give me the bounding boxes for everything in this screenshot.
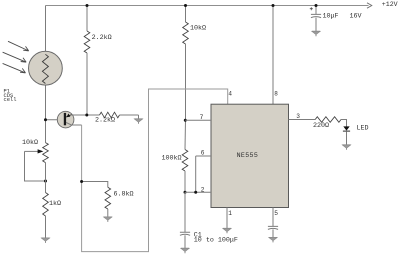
- pin 1 stub: [226, 207, 228, 228]
- ground below LED: [342, 145, 350, 150]
- pin 3 stub: [289, 119, 316, 121]
- IC U1 NE555 body: [211, 104, 289, 207]
- resistor R 2.2k (vertical): [86, 6, 88, 32]
- wire +12V top rail: [46, 5, 369, 7]
- svg-text:100kΩ: 100kΩ: [162, 155, 182, 163]
- svg-text:2: 2: [201, 186, 205, 193]
- resistor R 220 ohm: [315, 117, 341, 123]
- wire emitter to 6.8k: [82, 182, 108, 188]
- junction 100k/C1/pin2: [184, 191, 187, 194]
- ground below 6.8k: [104, 217, 112, 222]
- wire from rail down through photocell to base junction: [45, 6, 47, 143]
- wiper return wire: [25, 151, 46, 181]
- potentiometer wiper arrow: [25, 150, 41, 152]
- pin 5 stub: [272, 207, 274, 226]
- ground below 1k: [41, 238, 49, 243]
- junction rail/cap: [315, 4, 318, 7]
- svg-text:6: 6: [201, 149, 205, 156]
- junction rail/2.2k: [86, 4, 89, 7]
- resistor R 100k: [182, 150, 188, 172]
- junction rail/pin8: [272, 4, 275, 7]
- light ray arrow 1: [8, 41, 29, 51]
- junction pin7: [184, 119, 187, 122]
- wire pin2 node down to C1: [184, 192, 186, 232]
- junction emitter route / 6.8k: [80, 180, 83, 183]
- light ray arrow 2: [3, 52, 27, 62]
- junction rail/10k: [184, 4, 187, 7]
- resistor R 10k (vertical, top): [185, 6, 187, 23]
- pin 7 stub: [185, 119, 211, 121]
- ground pin 1: [223, 228, 231, 233]
- resistor R 2.2k (horizontal): [100, 112, 120, 118]
- svg-text:2.2kΩ: 2.2kΩ: [95, 116, 115, 124]
- pin 6 stub: [196, 155, 211, 157]
- wire LED to ground: [346, 131, 348, 145]
- wire 6.8k to ground: [107, 209, 109, 217]
- svg-text:10 to 100μF: 10 to 100μF: [194, 236, 238, 244]
- svg-text:8: 8: [274, 91, 278, 98]
- transistor Q1 base bar: [64, 113, 66, 125]
- wire emitter route to pin 4: [82, 89, 228, 252]
- svg-text:220Ω: 220Ω: [313, 122, 329, 130]
- capacitor C1 plates: [180, 232, 190, 235]
- pin 2 stub: [185, 191, 211, 193]
- svg-text:6.8kΩ: 6.8kΩ: [114, 190, 134, 198]
- wire rail to pin 8: [272, 6, 274, 105]
- svg-text:10μF: 10μF: [323, 12, 339, 20]
- ground below 10uF cap: [315, 18, 317, 32]
- wire 100k down to pin2 node: [184, 171, 186, 192]
- svg-text:16V: 16V: [350, 12, 362, 20]
- resistor R 1k: [43, 193, 49, 217]
- ground right of 2.2k: [138, 115, 140, 119]
- wire pin5 cap to ground: [272, 229, 274, 237]
- wire 10k to 100k through pin7 junction: [184, 120, 187, 149]
- transistor Q1 emitter lead: [66, 122, 82, 125]
- svg-text:10kΩ: 10kΩ: [190, 25, 206, 33]
- resistor R 6.8k: [105, 187, 111, 209]
- capacitor on pin 5: [268, 226, 278, 229]
- svg-text:2.2kΩ: 2.2kΩ: [92, 34, 112, 42]
- svg-text:NE555: NE555: [237, 152, 259, 159]
- junction collector / 2.2k vertical: [85, 114, 88, 117]
- wire collector to resistors: [72, 114, 100, 116]
- potentiometer 10k: [43, 143, 49, 163]
- svg-text:1kΩ: 1kΩ: [49, 200, 61, 208]
- transistor Q1 body: [57, 111, 74, 128]
- svg-text:LED: LED: [357, 125, 369, 133]
- svg-text:5: 5: [274, 210, 278, 217]
- capacitor 10uF negative plate: [311, 17, 321, 18]
- transistor Q1 collector lead with arrow: [66, 115, 71, 117]
- svg-text:1: 1: [228, 210, 232, 217]
- wire 220 to LED: [341, 120, 347, 127]
- svg-text:7: 7: [200, 114, 204, 121]
- wire base of Q1: [46, 119, 64, 121]
- junction bracket/pin2: [194, 191, 197, 194]
- wire pin6 to pin2 bracket: [195, 156, 197, 192]
- junction wiper/bottom: [44, 180, 47, 183]
- svg-text:3: 3: [296, 113, 300, 120]
- svg-text:4: 4: [228, 91, 232, 98]
- light ray arrow 3: [3, 63, 26, 73]
- photoresistor P1 body: [29, 51, 63, 85]
- +12V supply arrow: [367, 3, 372, 8]
- svg-text:10kΩ: 10kΩ: [22, 139, 38, 147]
- ground pin 5: [269, 238, 277, 243]
- svg-text:+12V: +12V: [382, 1, 398, 8]
- wire pot to 1k: [45, 163, 47, 193]
- svg-text:cell: cell: [4, 97, 17, 103]
- polarity plus sign: [310, 7, 313, 10]
- wire C1 to ground: [184, 235, 186, 248]
- photoresistor P1 zigzag element: [42, 54, 48, 83]
- capacitor 10uF 16V positive plate: [311, 6, 321, 15]
- wire 1k to ground: [45, 216, 47, 238]
- junction base wire / left chain: [44, 118, 47, 121]
- wire 2.2k to ground: [120, 114, 139, 116]
- ground below C1: [181, 248, 189, 253]
- LED D1: [343, 126, 349, 130]
